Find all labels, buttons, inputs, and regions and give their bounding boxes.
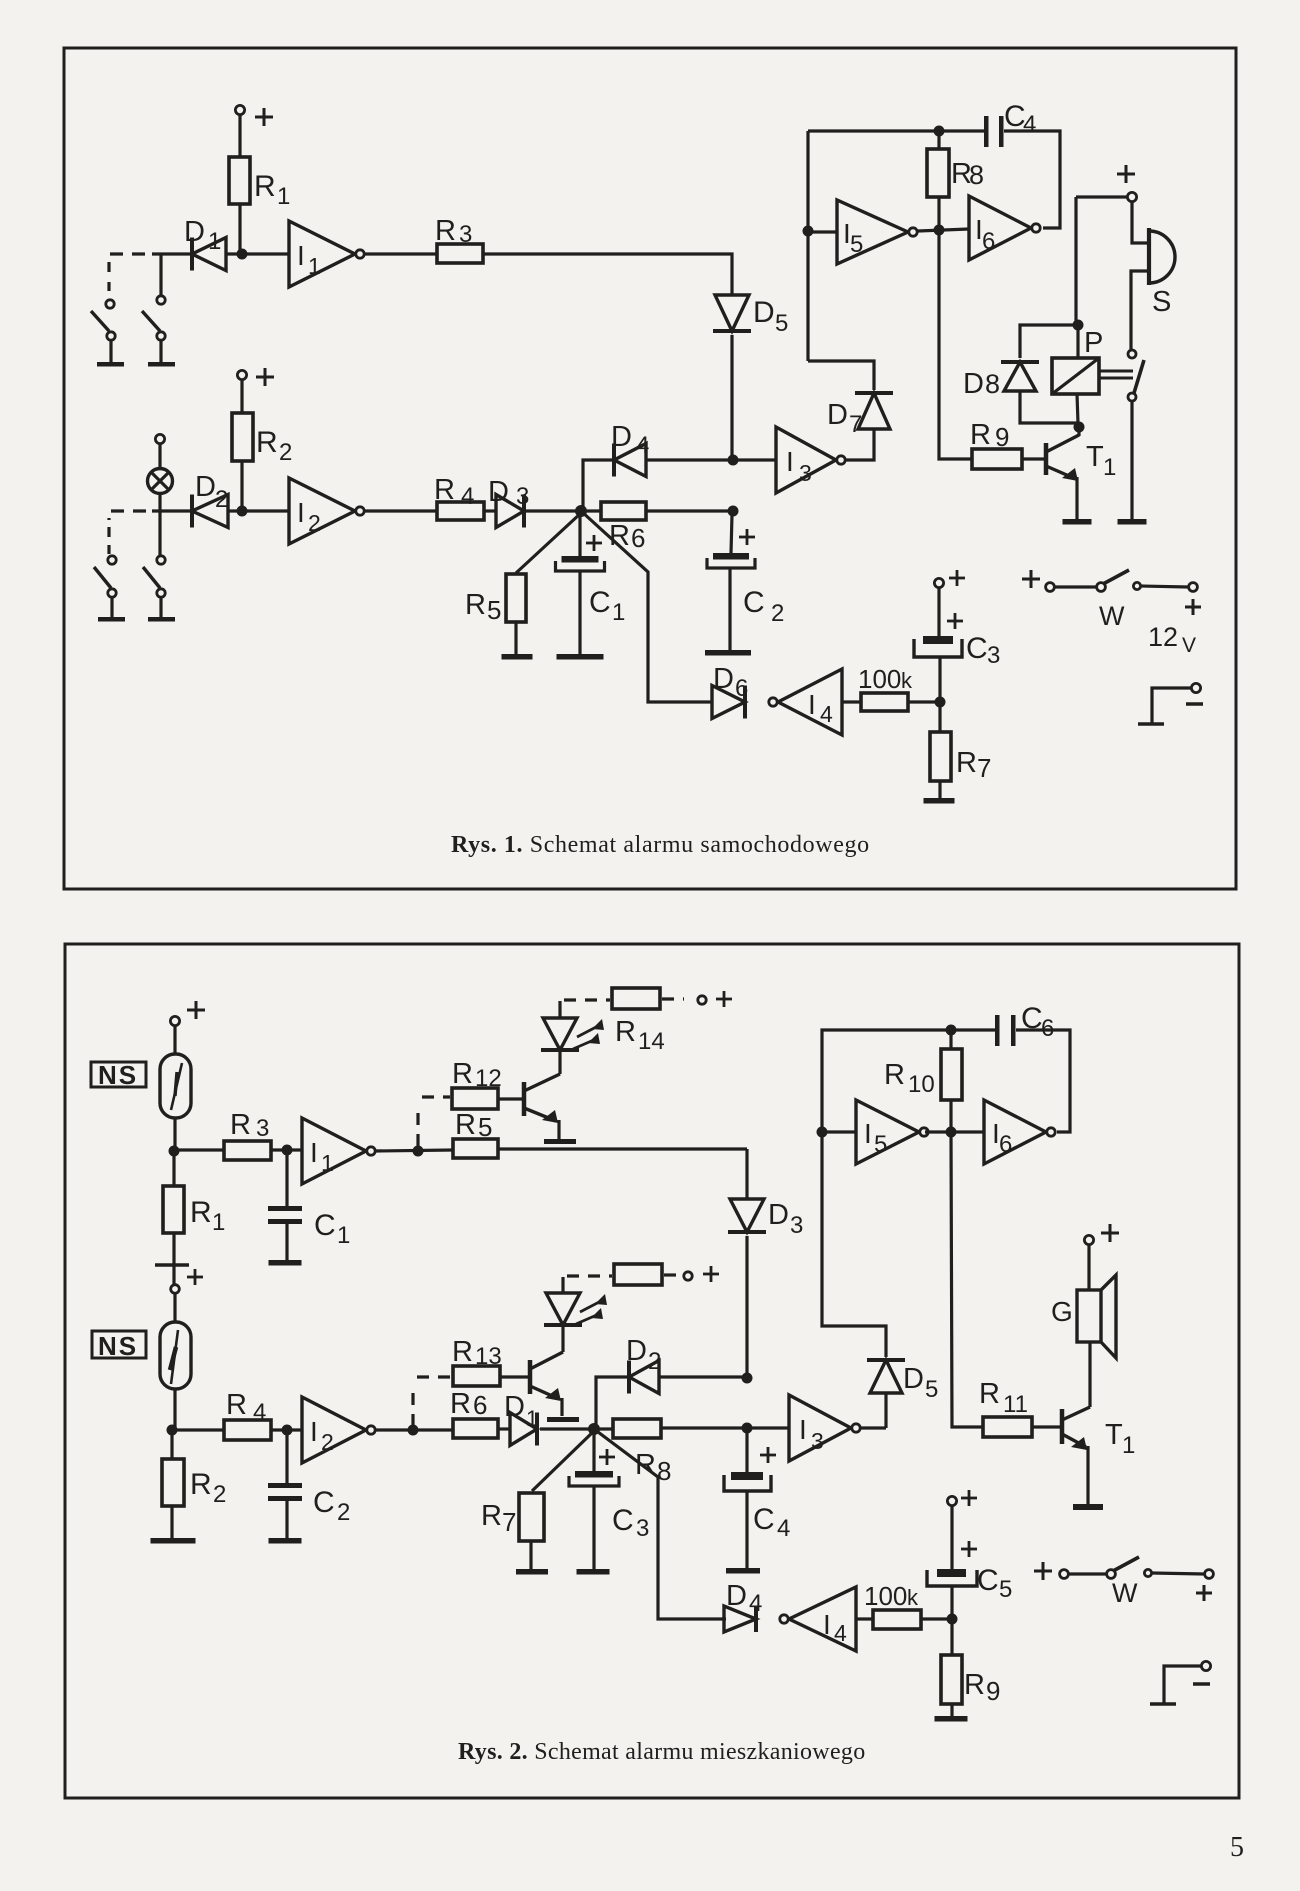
svg-text:2: 2 bbox=[279, 439, 292, 466]
LED D-led2 bbox=[544, 1323, 582, 1327]
capacitor C2 (electrolytic) bbox=[713, 553, 749, 560]
svg-text:6: 6 bbox=[999, 1131, 1012, 1158]
inverter I6 bbox=[969, 196, 1031, 260]
terminal LED2 supply bbox=[684, 1272, 692, 1280]
svg-text:D: D bbox=[611, 421, 632, 453]
svg-text:I: I bbox=[864, 1118, 872, 1149]
wire to I3 bbox=[747, 1426, 789, 1429]
svg-text:D: D bbox=[963, 368, 984, 400]
wire D7 cathode up-left to I5 input column bbox=[808, 361, 874, 390]
svg-text:R: R bbox=[481, 1500, 502, 1532]
svg-text:R: R bbox=[884, 1059, 905, 1091]
junction I5 input bbox=[817, 1127, 828, 1138]
wire Q1 emitter to chassis bbox=[557, 1120, 560, 1139]
door switch 2b bbox=[157, 556, 165, 564]
svg-text:7: 7 bbox=[977, 753, 991, 783]
wire R5 to D3 column bbox=[498, 1147, 747, 1150]
junction R12 tap bbox=[413, 1146, 424, 1157]
diode D5 bbox=[715, 295, 749, 331]
wire D5 to D4/I3 node bbox=[730, 335, 733, 460]
svg-text:3: 3 bbox=[811, 1428, 824, 1454]
wire D2 anode to column bbox=[659, 1375, 747, 1378]
svg-text:R: R bbox=[964, 1669, 985, 1701]
sensor NS2 (glass reed) bbox=[160, 1322, 191, 1389]
diode D1 bbox=[192, 238, 226, 271]
wire LED2 to resistor (dashed) bbox=[561, 1277, 564, 1293]
transistor T1 (fig 2) bbox=[1060, 1409, 1065, 1444]
svg-text:I: I bbox=[297, 240, 305, 271]
wire I3 output bbox=[861, 1426, 886, 1429]
svg-text:1: 1 bbox=[337, 1222, 350, 1249]
wire Q1 collector to LED1 bbox=[558, 1050, 561, 1074]
positive supply terminal (top of R2) bbox=[237, 370, 246, 379]
oscillator top wire bbox=[808, 129, 984, 132]
svg-text:12: 12 bbox=[475, 1065, 502, 1092]
svg-text:9: 9 bbox=[986, 1676, 1000, 1706]
junction D2 bbox=[742, 1373, 753, 1384]
svg-text:5: 5 bbox=[999, 1576, 1012, 1603]
svg-text:9: 9 bbox=[995, 422, 1009, 452]
wire up to C3 bbox=[938, 657, 941, 702]
interior lamp bbox=[148, 469, 173, 494]
chassis bar switch 1a bbox=[97, 362, 124, 367]
svg-text:G: G bbox=[1051, 1296, 1073, 1327]
capacitor C4 bbox=[984, 116, 989, 147]
svg-text:R: R bbox=[465, 589, 486, 621]
wire I5 input bbox=[808, 230, 837, 233]
resistor R11 bbox=[983, 1417, 1032, 1437]
wire I5 input column down to D5 bbox=[822, 1132, 886, 1357]
wire I4 to 100k bbox=[842, 700, 861, 703]
wire R12 to Q1 base bbox=[498, 1097, 524, 1100]
wire to R5 bbox=[516, 513, 581, 573]
wire column to C2 bbox=[731, 515, 732, 553]
label box NS 2 bbox=[92, 1331, 146, 1358]
freewheel loop wire D8 bottom bbox=[1020, 391, 1079, 423]
resistor R8 bbox=[937, 131, 940, 149]
svg-text:NS: NS bbox=[98, 1060, 138, 1090]
capacitor C6 bbox=[995, 1015, 1000, 1046]
diode D4 bbox=[724, 1606, 756, 1632]
svg-text:1: 1 bbox=[1103, 454, 1116, 481]
resistor R8 bbox=[594, 1427, 613, 1430]
wire D4 cathode down to node A bbox=[583, 460, 614, 511]
junction R1/D1/I1 bbox=[237, 249, 248, 260]
resistor R2 bbox=[170, 1430, 173, 1459]
resistor R9 bbox=[972, 449, 1022, 469]
junction I5 output / R8 bbox=[934, 225, 945, 236]
junction C2 tap bbox=[282, 1425, 293, 1436]
wire I1 output to R3 bbox=[363, 252, 437, 255]
svg-text:k: k bbox=[907, 1585, 919, 1610]
transistor T1 bbox=[1044, 443, 1049, 475]
svg-text:D: D bbox=[713, 663, 734, 695]
ground R9 bbox=[935, 1716, 968, 1722]
wire 100k to C3 node bbox=[908, 700, 940, 703]
ground C2 bbox=[269, 1538, 302, 1544]
capacitor C4 (electrolytic) bbox=[731, 1472, 763, 1480]
wire C4 to I6 output bbox=[1004, 131, 1060, 228]
svg-text:3: 3 bbox=[459, 221, 472, 248]
chassis bar switch 2b bbox=[148, 617, 175, 622]
battery tap bar bbox=[155, 1263, 189, 1267]
wire D1 to node B bbox=[540, 1427, 594, 1430]
svg-text:C: C bbox=[589, 586, 611, 619]
node B (timing node) bbox=[588, 1423, 600, 1435]
inverter I6 bbox=[984, 1100, 1046, 1164]
wire contact to ground bbox=[1130, 401, 1133, 519]
wire R9 to ground bbox=[950, 1704, 953, 1716]
svg-text:2: 2 bbox=[771, 600, 784, 627]
diode D5 bbox=[870, 1360, 902, 1393]
junction R10 top bbox=[946, 1025, 957, 1036]
diode D8 bbox=[1004, 362, 1036, 391]
svg-text:6: 6 bbox=[735, 675, 748, 702]
dashed to LED supply terminal bbox=[662, 997, 684, 1000]
wire C3 to terminal bbox=[937, 588, 940, 636]
svg-text:2: 2 bbox=[648, 1348, 661, 1375]
svg-text:Rys. 1. Schemat alarmu samocho: Rys. 1. Schemat alarmu samochodowego bbox=[451, 832, 870, 858]
ground C2 bbox=[705, 650, 751, 656]
svg-text:D: D bbox=[504, 1391, 525, 1423]
wire lamp to row bbox=[158, 493, 161, 556]
wire R9 to T1 base bbox=[1022, 457, 1046, 460]
svg-text:4: 4 bbox=[777, 1515, 790, 1542]
svg-text:D: D bbox=[488, 476, 509, 508]
svg-text:D: D bbox=[827, 399, 848, 431]
svg-text:R: R bbox=[434, 474, 455, 506]
junction I5 input bbox=[803, 226, 814, 237]
diode D3 bbox=[730, 1199, 764, 1232]
label +12V supply bbox=[1185, 606, 1201, 609]
svg-text:k: k bbox=[901, 668, 913, 693]
LED D-led1 bbox=[541, 1048, 579, 1052]
svg-text:V: V bbox=[1182, 634, 1196, 657]
svg-text:I: I bbox=[786, 446, 794, 477]
svg-text:10: 10 bbox=[908, 1071, 935, 1098]
svg-text:R: R bbox=[256, 426, 278, 459]
svg-text:W: W bbox=[1099, 601, 1125, 631]
svg-text:C: C bbox=[753, 1503, 775, 1536]
svg-text:T: T bbox=[1086, 441, 1104, 473]
svg-text:2: 2 bbox=[215, 486, 228, 513]
node A (timing node) bbox=[575, 505, 587, 517]
positive terminal speaker bbox=[1084, 1235, 1093, 1244]
inverter I1 bbox=[289, 221, 355, 287]
svg-text:R: R bbox=[615, 1016, 636, 1048]
inverter I2 bbox=[289, 478, 355, 544]
svg-text:I: I bbox=[808, 689, 816, 720]
wire C3 to ground bbox=[592, 1486, 595, 1569]
svg-text:14: 14 bbox=[638, 1028, 665, 1055]
ground R5 bbox=[502, 654, 533, 660]
wire I5 input bbox=[822, 1130, 856, 1133]
svg-text:R: R bbox=[956, 747, 977, 779]
resistor R5 bbox=[453, 1139, 498, 1158]
svg-text:4: 4 bbox=[820, 701, 833, 727]
resistor R4 bbox=[437, 502, 484, 520]
wire I4 to 100k bbox=[856, 1617, 873, 1620]
svg-text:I: I bbox=[823, 1609, 831, 1640]
arming switch W bbox=[1022, 578, 1040, 581]
wire D1 anode to I1 bbox=[226, 252, 289, 255]
svg-text:6: 6 bbox=[631, 523, 645, 553]
wire I5 output to I6 bbox=[925, 1130, 984, 1133]
resistor R12 bbox=[452, 1088, 498, 1109]
svg-text:7: 7 bbox=[849, 411, 862, 438]
resistor R5 bbox=[506, 574, 526, 622]
svg-text:C: C bbox=[612, 1504, 634, 1537]
sensor NS1 (glass reed) bbox=[160, 1054, 191, 1118]
svg-text:100: 100 bbox=[858, 664, 901, 694]
svg-text:1: 1 bbox=[308, 253, 321, 279]
svg-text:I: I bbox=[297, 497, 305, 528]
wire R1 to input node bbox=[238, 204, 241, 254]
junction relay/D8/T1 bbox=[1074, 422, 1085, 433]
wire R7 to ground bbox=[938, 781, 941, 798]
svg-text:1: 1 bbox=[212, 1209, 225, 1236]
svg-text:1: 1 bbox=[321, 1150, 334, 1176]
wire Q2 emitter to chassis bbox=[560, 1398, 563, 1416]
svg-text:5: 5 bbox=[1230, 1832, 1244, 1863]
wire T1 emitter to ground bbox=[1086, 1446, 1089, 1504]
svg-text:2: 2 bbox=[213, 1481, 226, 1508]
svg-text:3: 3 bbox=[516, 483, 529, 510]
junction R13 tap bbox=[408, 1425, 419, 1436]
positive supply terminal (sensor 1) bbox=[170, 1016, 179, 1025]
wire I5 output to I6 bbox=[918, 229, 969, 231]
svg-text:D: D bbox=[626, 1335, 647, 1367]
resistor R3 bbox=[437, 244, 483, 263]
capacitor C3 (electrolytic) bbox=[575, 1471, 613, 1478]
svg-text:NS: NS bbox=[98, 1331, 138, 1361]
wire C4 to ground bbox=[745, 1491, 748, 1568]
dashed link to R13 bbox=[411, 1384, 414, 1426]
svg-text:I: I bbox=[310, 1137, 318, 1168]
svg-text:6: 6 bbox=[982, 228, 995, 255]
wire T1 collector to relay node bbox=[1077, 427, 1080, 436]
svg-text:5: 5 bbox=[478, 1112, 492, 1142]
svg-text:1: 1 bbox=[277, 183, 290, 210]
wire I3 output to D7 bbox=[845, 429, 874, 460]
svg-text:5: 5 bbox=[850, 231, 863, 258]
svg-text:C: C bbox=[743, 586, 765, 619]
junction column row 2 bbox=[742, 1423, 753, 1434]
resistor R14b (unlabelled) bbox=[614, 1264, 662, 1285]
svg-text:R: R bbox=[455, 1109, 476, 1141]
inverter I3 bbox=[789, 1395, 851, 1461]
relay actuator linkage bbox=[1099, 370, 1133, 373]
wire astable output down to R9 bbox=[939, 230, 972, 459]
svg-text:100: 100 bbox=[864, 1581, 907, 1611]
wire R6 to D5 column bbox=[646, 509, 733, 512]
svg-text:4: 4 bbox=[749, 1590, 762, 1617]
figure 2 frame bbox=[65, 944, 1239, 1798]
resistor R13 bbox=[453, 1366, 500, 1386]
wire column to D3 bbox=[745, 1149, 748, 1199]
junction sensor divider 1 bbox=[169, 1146, 180, 1157]
capacitor C2 bbox=[285, 1430, 288, 1483]
inverter I4 (reversed) bbox=[778, 669, 842, 735]
wire R3 to I1 bbox=[271, 1148, 302, 1151]
diode D7 bbox=[858, 393, 890, 429]
chassis bar switch 2a bbox=[98, 617, 125, 622]
ground C3 bbox=[577, 1569, 610, 1575]
resistor 100k bbox=[861, 693, 908, 711]
svg-text:R: R bbox=[190, 1196, 212, 1229]
wire R4 to I2 bbox=[271, 1428, 302, 1431]
svg-text:3: 3 bbox=[636, 1515, 649, 1542]
diode D3 bbox=[496, 495, 524, 528]
junction C5/R9 bbox=[947, 1614, 958, 1625]
wire R8 to column bbox=[661, 1426, 747, 1429]
wire R5 to ground bbox=[514, 622, 517, 655]
transistor Q2 (LED driver 2) bbox=[528, 1360, 533, 1394]
svg-text:8: 8 bbox=[985, 369, 1000, 399]
inverter I4 (reversed) bbox=[789, 1587, 856, 1651]
resistor R14 bbox=[612, 988, 660, 1009]
figure 1 frame bbox=[64, 48, 1236, 889]
svg-text:1: 1 bbox=[526, 1406, 538, 1431]
junction C3/R7 bbox=[935, 697, 946, 708]
svg-text:3: 3 bbox=[256, 1115, 269, 1142]
wire node A to C1 bbox=[578, 511, 581, 556]
wire relay coil to T1 collector bbox=[1077, 394, 1078, 423]
wire R6 to D1 bbox=[498, 1427, 510, 1430]
svg-text:5: 5 bbox=[487, 595, 501, 625]
svg-text:5: 5 bbox=[775, 310, 788, 337]
ground C1 bbox=[269, 1260, 302, 1266]
svg-text:1: 1 bbox=[208, 228, 221, 255]
svg-text:D: D bbox=[753, 296, 775, 329]
lamp terminal bbox=[155, 434, 164, 443]
wire door-contact line 2 (dashed) bbox=[152, 509, 192, 512]
feedback column wire (I5 input) bbox=[806, 131, 809, 361]
wire D2 anode to I2 bbox=[228, 509, 289, 512]
junction R8 top bbox=[934, 126, 945, 137]
svg-text:R: R bbox=[450, 1388, 471, 1420]
label box NS 1 bbox=[91, 1062, 146, 1087]
svg-text:3: 3 bbox=[799, 460, 812, 486]
svg-text:D: D bbox=[726, 1580, 747, 1612]
wire R13 to Q2 base bbox=[500, 1375, 530, 1378]
resistor R6 bbox=[581, 509, 601, 512]
svg-text:12: 12 bbox=[1148, 622, 1178, 652]
ground C1 bbox=[557, 654, 604, 660]
wire NS2 to node bbox=[173, 1389, 176, 1430]
svg-text:6: 6 bbox=[473, 1390, 487, 1420]
wire R2 to ground bbox=[170, 1506, 173, 1538]
dashed to LED2 supply terminal bbox=[664, 1273, 681, 1276]
svg-text:C: C bbox=[313, 1486, 335, 1519]
resistor R2 bbox=[232, 413, 253, 461]
dashed link to R12 bbox=[416, 1104, 419, 1146]
capacitor C5 (electrolytic) bbox=[927, 1570, 977, 1586]
wire I2 output to R4 bbox=[363, 509, 437, 512]
arming switch W (fig 2) bbox=[1034, 1570, 1052, 1573]
svg-text:R: R bbox=[254, 170, 276, 203]
svg-text:R: R bbox=[226, 1389, 247, 1421]
wire D3 to node A bbox=[526, 509, 581, 512]
ground R7 bbox=[516, 1569, 548, 1575]
wire Q2 collector to LED2 bbox=[561, 1326, 564, 1352]
speaker G bbox=[1077, 1290, 1101, 1342]
wire T1 collector to speaker bbox=[1088, 1342, 1091, 1407]
junction R2/D2/I2 bbox=[237, 506, 248, 517]
wire C2 to ground bbox=[728, 568, 731, 650]
svg-text:D: D bbox=[768, 1199, 789, 1231]
wire up to C5 bbox=[950, 1586, 953, 1619]
label minus bbox=[1186, 702, 1203, 705]
oscillator 2 top wire bbox=[822, 1030, 995, 1132]
svg-text:11: 11 bbox=[1003, 1391, 1028, 1418]
resistor R9 bbox=[950, 1619, 953, 1655]
wire to NS2 bbox=[173, 1293, 176, 1322]
diode D4 bbox=[614, 444, 646, 477]
wire D8 top to relay top junction bbox=[1020, 325, 1078, 358]
relay coil P bbox=[1076, 325, 1079, 358]
inverter I1 bbox=[302, 1118, 366, 1184]
resistor R1 bbox=[229, 157, 250, 204]
wire C5 to terminal bbox=[950, 1506, 953, 1570]
capacitor C3 (electrolytic) bbox=[914, 639, 962, 657]
svg-text:5: 5 bbox=[925, 1376, 938, 1403]
svg-text:4: 4 bbox=[253, 1399, 266, 1426]
resistor R3 bbox=[174, 1148, 224, 1151]
wire siren to contact bbox=[1131, 271, 1148, 350]
svg-text:7: 7 bbox=[502, 1507, 516, 1537]
resistor R4 bbox=[172, 1428, 224, 1431]
svg-text:D: D bbox=[903, 1363, 924, 1395]
diode D2 bbox=[629, 1361, 659, 1394]
wire 100k to C5 node bbox=[921, 1617, 952, 1620]
svg-text:C: C bbox=[977, 1564, 999, 1597]
wire D4 anode to I3 input bbox=[646, 458, 776, 461]
label minus (fig 2) bbox=[1193, 1682, 1210, 1685]
svg-text:I: I bbox=[799, 1414, 807, 1445]
diode D1 bbox=[510, 1413, 537, 1446]
resistor R7 bbox=[938, 702, 941, 732]
svg-text:2: 2 bbox=[337, 1499, 350, 1526]
svg-text:R: R bbox=[635, 1449, 656, 1481]
wire relay supply bbox=[1074, 197, 1077, 325]
resistor 100k bbox=[873, 1610, 921, 1629]
svg-text:4: 4 bbox=[834, 1620, 847, 1646]
door switch 1a bbox=[106, 300, 114, 308]
siren S bbox=[1147, 228, 1151, 285]
transistor Q1 (LED driver 1) bbox=[522, 1082, 527, 1116]
svg-text:C: C bbox=[966, 632, 988, 665]
ground T1 (fig 2) bbox=[1073, 1504, 1103, 1510]
svg-text:R: R bbox=[452, 1058, 473, 1090]
inverter I5 bbox=[837, 200, 908, 264]
wire R4 to D3 bbox=[484, 509, 496, 512]
svg-text:R: R bbox=[452, 1336, 473, 1368]
door switch 2a bbox=[108, 556, 116, 564]
positive supply terminal (siren) bbox=[1127, 192, 1136, 201]
terminal LED1 supply bbox=[698, 996, 706, 1004]
svg-text:3: 3 bbox=[987, 642, 1000, 669]
wire node B to D4 row bbox=[594, 1429, 726, 1619]
svg-text:Rys. 2. Schemat alarmu mieszka: Rys. 2. Schemat alarmu mieszkaniowego bbox=[458, 1739, 866, 1765]
wire I2 output to R6 bbox=[375, 1428, 453, 1431]
wire R2 to input node 2 bbox=[240, 461, 243, 511]
svg-text:D: D bbox=[184, 216, 205, 248]
svg-text:T: T bbox=[1105, 1419, 1123, 1451]
wire R7 to ground bbox=[529, 1541, 532, 1569]
positive terminal C5 bbox=[947, 1496, 956, 1505]
junction I5 output / R10 bbox=[946, 1127, 957, 1138]
